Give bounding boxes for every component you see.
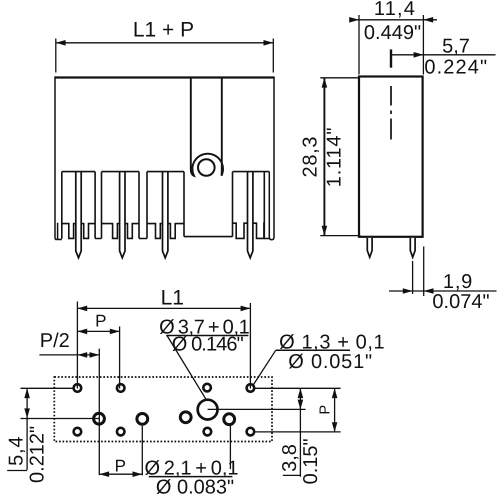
svg-text:0.224": 0.224": [424, 57, 488, 79]
medium holes middle row: [94, 412, 235, 425]
svg-text:0.449": 0.449": [364, 22, 421, 44]
svg-text:Ø 0.051": Ø 0.051": [288, 351, 373, 373]
svg-text:P: P: [95, 311, 106, 330]
leader diameter 1,3: [253, 350, 276, 385]
side view body: [359, 77, 423, 237]
side view pin B: [410, 238, 415, 257]
svg-text:3,8: 3,8: [279, 444, 301, 472]
front view housing top edge: [55, 76, 274, 78]
dimension P top: [77, 327, 119, 389]
svg-text:L1 + P: L1 + P: [133, 19, 194, 42]
pin 4 front: [248, 172, 253, 258]
svg-text:Ø 0.083": Ø 0.083": [156, 477, 234, 499]
small holes bottom row: [74, 428, 255, 436]
svg-text:28,3: 28,3: [300, 136, 322, 178]
side view pin A: [367, 238, 372, 257]
svg-text:P: P: [318, 405, 334, 415]
dimension L1 bottom view: [77, 302, 250, 389]
svg-text:0.212": 0.212": [27, 426, 49, 483]
dimension 5,7: [390, 49, 392, 67]
svg-text:0.074": 0.074": [432, 291, 489, 313]
reference lines right side: [208, 388, 341, 432]
dimension 11,4: [350, 15, 437, 75]
front view left wall: [55, 76, 58, 239]
dimension 3,8: [283, 388, 301, 477]
leader diameter 3,7: [167, 336, 206, 400]
svg-text:1,9: 1,9: [443, 271, 473, 293]
drilling plan dotted outline: [54, 377, 272, 442]
dimension P bottom: [99, 426, 142, 476]
front view right wall: [269, 76, 274, 239]
front view screw circle: [198, 159, 215, 176]
housing bottom floors: [58, 237, 270, 240]
svg-text:L1: L1: [161, 287, 184, 310]
svg-text:Ø 0.146": Ø 0.146": [172, 333, 244, 355]
tooth block 2: [102, 172, 140, 239]
tooth block 1: [62, 172, 95, 239]
svg-text:P/2: P/2: [40, 330, 70, 352]
dimension P/2: [39, 349, 99, 476]
tooth block 3: [147, 172, 184, 239]
dimension 1,9: [389, 247, 497, 297]
front view screw channel: [191, 78, 223, 176]
pin 3 front: [163, 172, 168, 258]
large hole: [198, 400, 218, 420]
leader diameter 2,1: [229, 425, 231, 469]
svg-text:P: P: [115, 456, 126, 475]
svg-text:1.114": 1.114": [324, 127, 346, 187]
svg-text:0.15": 0.15": [300, 438, 322, 484]
small holes top row: [74, 384, 255, 392]
side view center dashed line: [390, 86, 392, 140]
dimension 28,3: [320, 78, 360, 236]
dimension P vertical right: [334, 388, 336, 432]
pin 1 front: [76, 172, 81, 258]
svg-text:5,7: 5,7: [442, 36, 470, 58]
svg-text:11,4: 11,4: [374, 0, 416, 20]
tooth block 4: [233, 172, 270, 239]
dimension L1+P: [56, 39, 273, 73]
dimension 5,4: [7, 388, 99, 470]
svg-text:5,4: 5,4: [6, 436, 28, 466]
pin 2 front: [120, 172, 125, 258]
